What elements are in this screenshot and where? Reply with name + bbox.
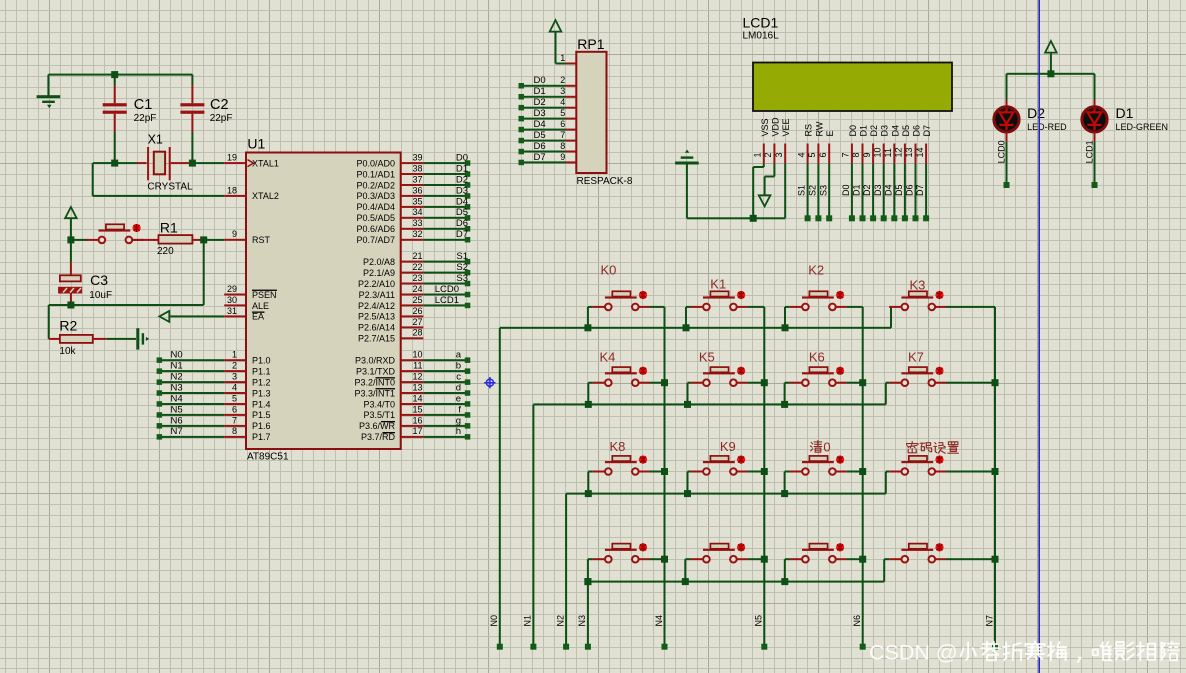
svg-text:C2: C2 [210, 97, 229, 113]
wire down to R2 [48, 305, 50, 339]
wire net S2 [423, 272, 467, 274]
LCD pin 13 stub [915, 144, 917, 164]
svg-text:LED-RED: LED-RED [1027, 122, 1067, 132]
svg-text:RESPACK-8: RESPACK-8 [577, 176, 633, 187]
push button K0 [587, 291, 665, 328]
svg-text:D7: D7 [456, 229, 468, 240]
pin 11 P3.1/TXD stub [401, 361, 424, 373]
wire net d [423, 392, 467, 394]
svg-text:C3: C3 [90, 272, 108, 288]
svg-text:3: 3 [232, 372, 237, 382]
push button reset [86, 224, 143, 243]
junction col4 row4 [992, 556, 999, 563]
svg-text:13: 13 [904, 147, 914, 157]
svg-text:D6: D6 [912, 125, 922, 137]
svg-text:14: 14 [412, 393, 422, 403]
LED D2 [994, 74, 1019, 182]
wire R1 left lead [132, 239, 158, 241]
power arrow VCC (LED) [1045, 41, 1057, 53]
svg-text:D3: D3 [880, 125, 890, 137]
net label D4 [456, 196, 468, 207]
wire row bus 4 [588, 581, 884, 583]
net label LCD0 [435, 284, 459, 295]
pin 38 P0.1/AD1 stub [401, 163, 424, 175]
svg-text:1: 1 [560, 53, 565, 63]
LCD pin 14 stub [925, 144, 927, 164]
LCD pin name VEE [781, 118, 791, 136]
pin name P2.1/A9 [363, 268, 395, 278]
LCD pin number 9 [862, 152, 872, 157]
wire net D0 (RP1) [521, 85, 565, 87]
terminal D4 (RP1) [519, 127, 525, 133]
key label K3 [910, 278, 926, 293]
key label K9 [720, 439, 736, 454]
svg-text:XTAL1: XTAL1 [252, 158, 279, 168]
svg-text:D7: D7 [915, 184, 925, 196]
svg-text:2: 2 [232, 361, 237, 371]
terminal S3 [465, 281, 471, 287]
junction bus4 drop2 [682, 578, 689, 585]
svg-text:9: 9 [862, 152, 872, 157]
net label S3 [456, 273, 468, 284]
wire net D6 [423, 228, 467, 230]
svg-text:3: 3 [774, 152, 784, 157]
wire top bus C1-C2-ground [48, 74, 192, 76]
wire net S1 [423, 261, 467, 263]
junction col3 row3 [859, 468, 866, 475]
terminal e [465, 401, 471, 407]
pin name P2.3/A11 [359, 290, 395, 300]
wire net a [423, 359, 467, 361]
pin 16 P3.6/WR stub [401, 415, 424, 427]
power arrow EA [159, 311, 169, 322]
pin name P2.7/A15 [358, 334, 395, 344]
LCD pin 2 stub [773, 144, 775, 164]
svg-text:N2: N2 [171, 372, 183, 383]
pin name P0.4/AD4 [356, 202, 395, 212]
net label D5 [456, 207, 468, 218]
svg-text:D6: D6 [456, 218, 468, 229]
svg-text:8: 8 [232, 426, 237, 436]
svg-text:27: 27 [412, 317, 422, 327]
junction bus3 drop2 [684, 490, 691, 497]
net label N0 (keypad) [489, 615, 499, 627]
svg-text:35: 35 [412, 196, 422, 206]
svg-text:K1: K1 [710, 277, 726, 292]
svg-text:P1.6: P1.6 [252, 421, 271, 431]
svg-text:8: 8 [851, 152, 861, 157]
terminal N6 [157, 423, 163, 429]
svg-text:14: 14 [915, 147, 925, 157]
net label N6 [171, 415, 183, 426]
svg-text:25: 25 [412, 295, 422, 305]
svg-text:D3: D3 [456, 185, 468, 196]
label C1 [134, 97, 153, 113]
svg-text:10: 10 [872, 147, 882, 157]
wire net N0 column [499, 328, 501, 647]
wire net D7 [423, 239, 467, 241]
svg-text:N7: N7 [171, 426, 183, 437]
terminal D0 (RP1) [519, 83, 525, 89]
svg-text:K4: K4 [600, 350, 616, 365]
svg-text:RP1: RP1 [577, 36, 604, 52]
terminal N1 (keypad) [530, 644, 536, 650]
value 22pF (C2) [210, 113, 233, 124]
XTAL1 clock mark [248, 160, 254, 167]
net label e [456, 393, 461, 404]
svg-text:19: 19 [227, 153, 237, 163]
svg-text:N0: N0 [489, 615, 499, 627]
wire net D1 [423, 173, 467, 175]
svg-text:LCD1: LCD1 [1085, 140, 1095, 163]
LCD pin 11 stub [893, 144, 895, 164]
resistor R2 [49, 335, 107, 343]
junction col1 row2 [661, 379, 668, 386]
net label LCD S3 [818, 185, 828, 196]
pin name P2.5/A13 [358, 312, 395, 322]
value AT89C51 [247, 451, 289, 462]
pin 1 P1.0 stub [224, 350, 246, 362]
svg-text:LM016L: LM016L [743, 30, 780, 41]
net label LCD1 (D1) [1085, 140, 1095, 163]
wire net f [423, 414, 467, 416]
svg-text:RW: RW [814, 121, 824, 136]
LCD pin name E [825, 130, 835, 136]
net label N5 (keypad) [754, 615, 764, 627]
pin 3 P1.2 stub [224, 372, 246, 384]
pin 21 P2.0/A8 stub [401, 251, 424, 263]
wire net N7 column [994, 307, 996, 647]
svg-text:24: 24 [412, 284, 422, 294]
pin name ALE [252, 301, 269, 311]
label D1 [1116, 105, 1134, 121]
svg-text:D3: D3 [873, 184, 883, 196]
svg-text:16: 16 [412, 415, 422, 425]
wire net h [423, 436, 467, 438]
svg-text:D7: D7 [534, 152, 546, 163]
LCD pin name D2 [869, 125, 879, 137]
label LCD1 [743, 14, 779, 30]
pin 26 P2.5/A13 stub [401, 306, 424, 318]
LCD pin number 2 [763, 152, 773, 157]
terminal b [465, 368, 471, 374]
wire LCD D1 [862, 164, 864, 219]
svg-text:D1: D1 [456, 163, 468, 174]
net label b [456, 361, 461, 372]
svg-text:10uF: 10uF [89, 290, 112, 301]
net label LCD S2 [808, 185, 818, 196]
net label S1 [456, 251, 468, 262]
svg-text:D2: D2 [862, 184, 872, 196]
value RESPACK-8 [577, 176, 633, 187]
label RP1 [577, 36, 604, 52]
terminal LCD1 (D1) [1092, 182, 1098, 188]
wire VSS to gnd bus [752, 164, 765, 219]
svg-text:D2: D2 [456, 174, 468, 185]
svg-text:EA: EA [252, 312, 264, 322]
svg-text:RST: RST [252, 235, 271, 245]
svg-text:CSDN @: CSDN @ [869, 641, 958, 665]
svg-text:P3.7/RD: P3.7/RD [361, 432, 396, 442]
pin 14 P3.4/T0 stub [401, 393, 424, 405]
wire net D4 (RP1) [521, 129, 565, 131]
LCD pin 7 stub [851, 144, 853, 164]
svg-text:R2: R2 [59, 318, 77, 334]
pin 18 XTAL2 stub [224, 185, 246, 197]
svg-text:D0: D0 [841, 184, 851, 196]
terminal LCD S3 [826, 215, 832, 221]
svg-text:37: 37 [412, 174, 422, 184]
terminal D1 (RP1) [519, 94, 525, 100]
junction X1 left [111, 160, 118, 167]
net label D1 (RP1) [534, 86, 546, 97]
terminal N2 [157, 379, 163, 385]
wire XTAL2 loop [92, 163, 225, 197]
wire net e [423, 403, 467, 405]
pin 22 P2.1/A9 stub [401, 262, 424, 274]
terminal D7 [465, 237, 471, 243]
push button row4 col2 [684, 543, 764, 581]
svg-text:4: 4 [232, 382, 237, 392]
wire VCC down to C3 [70, 240, 72, 263]
svg-text:17: 17 [412, 426, 422, 436]
pin 9 RST stub [224, 229, 246, 241]
junction bus4 start [584, 578, 591, 585]
value 220 [157, 246, 174, 257]
terminal D5 (RP1) [519, 138, 525, 144]
svg-text:N1: N1 [171, 361, 183, 372]
wire LCD D0 [851, 164, 853, 219]
net label N7 [171, 426, 183, 437]
wire R2 to ground [106, 338, 136, 340]
svg-text:P2.2/A10: P2.2/A10 [358, 279, 395, 289]
svg-text:S1: S1 [456, 251, 468, 262]
svg-text:C1: C1 [134, 97, 153, 113]
wire C1 bottom lead [114, 114, 116, 163]
wire net N1 (P1.1) [159, 370, 224, 372]
svg-text:h: h [456, 426, 461, 437]
svg-text:28: 28 [412, 328, 422, 338]
push button 密码设置 [885, 456, 995, 494]
svg-text:D4: D4 [883, 184, 893, 196]
wire C3 bottom row [49, 304, 204, 306]
pin name P0.2/AD2 [356, 180, 395, 190]
net label LCD D4 [883, 184, 893, 196]
wire net D1 (RP1) [521, 96, 565, 98]
svg-text:P1.3: P1.3 [252, 388, 271, 398]
svg-text:D4: D4 [534, 119, 546, 130]
pin 33 P0.6/AD6 stub [401, 218, 424, 230]
pin 7 RP1 stub [560, 130, 576, 142]
junction col1 row3 [661, 468, 668, 475]
terminal N3 [157, 390, 163, 396]
wire net D7 (RP1) [521, 161, 565, 163]
wire C2 bottom lead [191, 114, 193, 163]
pin name P0.0/AD0 [356, 158, 395, 168]
net label N4 [171, 393, 183, 404]
svg-text:15: 15 [412, 404, 422, 414]
push button row4 col3 [784, 543, 863, 581]
svg-text:e: e [456, 393, 461, 404]
push button K8 [587, 456, 664, 494]
svg-text:6: 6 [232, 404, 237, 414]
svg-text:ALE: ALE [252, 301, 269, 311]
svg-text:5: 5 [560, 108, 565, 118]
LCD pin number 3 [774, 152, 784, 157]
svg-text:P0.3/AD3: P0.3/AD3 [356, 191, 395, 201]
crystal X1 [137, 147, 182, 180]
LCD pin name VSS [760, 118, 770, 136]
capacitor C1 [103, 103, 127, 114]
respack RP1 body [576, 52, 606, 173]
svg-text:23: 23 [412, 273, 422, 283]
svg-text:N3: N3 [171, 382, 183, 393]
svg-text:P2.4/A12: P2.4/A12 [358, 301, 395, 311]
svg-text:D4: D4 [890, 125, 900, 137]
wire LED power stem [1050, 53, 1052, 74]
svg-text:P0.4/AD4: P0.4/AD4 [356, 202, 395, 212]
svg-text:D6: D6 [905, 184, 915, 196]
net label a [456, 350, 462, 361]
svg-text:P1.1: P1.1 [252, 366, 271, 376]
pin name XTAL1 [252, 158, 279, 168]
net label c [456, 372, 461, 383]
pin name P0.6/AD6 [356, 224, 395, 234]
terminal a [465, 357, 471, 363]
junction bus1 drop2 [683, 324, 690, 331]
wire net N4 (P1.4) [159, 403, 224, 405]
svg-text:P2.3/A11: P2.3/A11 [359, 290, 395, 300]
junction bus2 drop1 [585, 401, 592, 408]
wire net N1 column [532, 404, 534, 646]
svg-text:D4: D4 [456, 196, 468, 207]
svg-text:D7: D7 [922, 125, 932, 137]
pin name P1.7 [252, 432, 271, 442]
LED D1 [1082, 74, 1107, 182]
pin name P3.4/T0 [363, 399, 395, 409]
junction col4 row3 [992, 468, 999, 475]
svg-text:f: f [458, 404, 461, 415]
svg-text:K8: K8 [610, 439, 626, 454]
terminal D5 [465, 215, 471, 221]
svg-text:P0.1/AD1: P0.1/AD1 [356, 169, 395, 179]
svg-text:2: 2 [763, 152, 773, 157]
junction bus1 drop1 [584, 324, 591, 331]
LCD pin number 12 [894, 147, 904, 157]
wire net N6 column [862, 307, 864, 647]
pin 2 RP1 stub [560, 75, 576, 87]
svg-text:11: 11 [883, 148, 893, 157]
pin 25 P2.4/A12 stub [401, 295, 424, 307]
net label D6 (RP1) [534, 141, 546, 152]
pin name P1.3 [252, 388, 271, 398]
terminal S2 [465, 270, 471, 276]
label X1 [148, 132, 163, 146]
wire net N5 column [763, 307, 765, 647]
pin name P0.3/AD3 [356, 191, 395, 201]
svg-text:K9: K9 [720, 439, 736, 454]
wire row bus 3 [566, 493, 886, 495]
pin name P2.6/A14 [358, 323, 395, 333]
svg-text:PSEN: PSEN [252, 290, 277, 300]
junction col3 row2 [859, 379, 866, 386]
wire reset left [71, 239, 88, 241]
LCD pin number 4 [796, 152, 806, 157]
pin name XTAL2 [252, 191, 279, 201]
value CRYSTAL [147, 182, 193, 193]
LCD pin number 7 [841, 152, 851, 157]
terminal D2 (RP1) [519, 105, 525, 111]
svg-text:LCD1: LCD1 [435, 295, 459, 306]
terminal LCD D2 [870, 215, 876, 221]
junction col2 row3 [761, 468, 768, 475]
LCD pin 9 stub [872, 144, 874, 164]
LCD pin name D6 [912, 125, 922, 137]
pin 5 RP1 stub [560, 108, 576, 120]
terminal N4 [157, 401, 163, 407]
svg-text:VEE: VEE [781, 118, 791, 136]
wire LCD S3 [828, 164, 830, 219]
wire net b [423, 370, 467, 372]
wire LCD D5 [904, 164, 906, 219]
svg-text:R1: R1 [160, 219, 178, 235]
junction C3 bottom [67, 302, 74, 309]
svg-text:38: 38 [412, 163, 422, 173]
terminal N1 [157, 368, 163, 374]
svg-text:N1: N1 [523, 615, 533, 627]
svg-text:D0: D0 [848, 125, 858, 137]
pin 29 PSEN stub [224, 284, 246, 296]
svg-text:P3.2/INT0: P3.2/INT0 [354, 377, 395, 387]
terminal LCD0 (D2) [1004, 182, 1010, 188]
svg-text:D5: D5 [901, 125, 911, 137]
terminal D7 (RP1) [519, 160, 525, 166]
svg-text:K7: K7 [908, 350, 924, 365]
key label K7 [908, 350, 924, 365]
terminal g [465, 423, 471, 429]
label R1 [160, 219, 178, 235]
svg-text:X1: X1 [148, 132, 163, 146]
capacitor C2 [180, 103, 204, 114]
terminal S1 [465, 259, 471, 265]
pin name P3.5/T1 [363, 410, 395, 420]
svg-text:1: 1 [753, 152, 763, 157]
wire net LCD1 [423, 304, 467, 306]
pin name P0.1/AD1 [356, 169, 395, 179]
svg-text:P0.6/AD6: P0.6/AD6 [356, 224, 395, 234]
pin name P0.5/AD5 [356, 213, 395, 223]
pin name P3.6/WR [359, 421, 396, 431]
svg-text:5: 5 [807, 152, 817, 157]
wire net N2 (P1.2) [159, 381, 224, 383]
net label LCD D5 [894, 184, 904, 196]
net label N3 [171, 382, 183, 393]
pin 4 RP1 stub [560, 97, 576, 109]
net label D3 (RP1) [534, 108, 546, 119]
wire X1 to XTAL1 [181, 162, 224, 164]
svg-text:AT89C51: AT89C51 [247, 451, 289, 462]
net label h [456, 426, 461, 437]
LCD pin number 10 [872, 147, 882, 157]
svg-text:b: b [456, 361, 461, 372]
svg-text:5: 5 [232, 393, 237, 403]
wire net N5 (P1.5) [159, 414, 224, 416]
svg-text:S2: S2 [456, 262, 468, 273]
svg-text:32: 32 [412, 229, 422, 239]
pin 8 P1.7 stub [224, 426, 246, 438]
terminal N7 (keypad) [992, 644, 998, 650]
svg-text:3: 3 [560, 86, 565, 96]
